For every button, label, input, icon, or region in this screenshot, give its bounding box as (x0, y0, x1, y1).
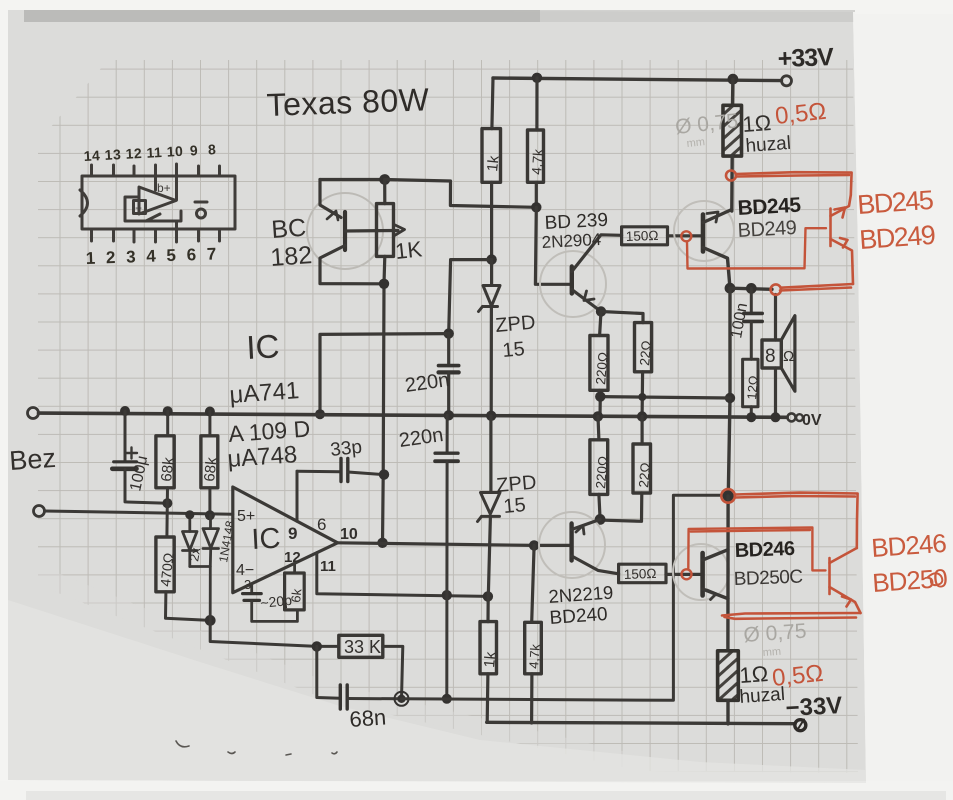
wire 4.7k feed (535, 78, 538, 130)
wire pin3 down (250, 584, 253, 593)
wire pin12 down (293, 563, 296, 573)
svg-text:5+: 5+ (237, 508, 255, 525)
capacitor 68n (317, 646, 402, 709)
node 0V terminal (788, 413, 803, 421)
wire pot feed (383, 180, 386, 204)
junction 68n/33K node (397, 695, 405, 703)
capacitor 220n lower (435, 415, 458, 595)
node -33V terminal (795, 720, 806, 731)
svg-text:12: 12 (284, 549, 301, 566)
svg-text:2N2904: 2N2904 (541, 230, 601, 252)
wire 220R bottom (598, 390, 602, 416)
junction 220R/bias (595, 391, 605, 401)
svg-text:μA748: μA748 (227, 441, 299, 473)
wire output column down (728, 288, 730, 494)
svg-text:8: 8 (765, 346, 776, 367)
resistor 150R upper (622, 227, 668, 245)
junction 1k/zener (486, 254, 496, 264)
svg-text:BD249: BD249 (737, 217, 797, 242)
resistor 22R lower (603, 417, 653, 522)
wire to 2N2904 base (535, 207, 571, 284)
svg-text:0,5Ω: 0,5Ω (771, 660, 825, 692)
wire step down to 4.7k node (385, 180, 537, 208)
junction 68n wire (442, 694, 452, 704)
wire emitter to 220R (600, 312, 601, 336)
transistor Q3 2N2219/BD240 driver (539, 512, 619, 578)
wire pot bottom long vertical to op-amp output (383, 256, 385, 542)
red wire BD245 base link (681, 228, 826, 268)
svg-text:182: 182 (269, 241, 313, 272)
svg-text:1k: 1k (484, 154, 503, 172)
wire 1R bottom to collector (730, 156, 734, 211)
resistor 22R upper (635, 323, 655, 372)
wire +33V rail (493, 78, 782, 81)
node +33V terminal (782, 76, 792, 86)
svg-text:BD240: BD240 (549, 604, 608, 629)
svg-text:4,7k: 4,7k (529, 148, 546, 175)
transistor Q5 BD246 output (pencil) (673, 544, 729, 600)
svg-text:mm: mm (762, 646, 781, 659)
svg-text:68n: 68n (349, 704, 387, 732)
wire 150R to BD245 base (668, 234, 703, 237)
resistor 470R (156, 537, 210, 620)
wire -33V bottom rail (487, 722, 795, 723)
junction 2N2904 emitter (596, 306, 606, 316)
svg-text:33p: 33p (329, 437, 363, 461)
svg-text:+: + (135, 201, 142, 215)
speaker 8R (762, 295, 795, 418)
svg-text:10: 10 (340, 526, 358, 543)
svg-text:Texas 80W: Texas 80W (266, 81, 430, 123)
capacitor 100n (744, 288, 762, 359)
svg-text:0,5Ω: 0,5Ω (774, 98, 828, 130)
transistor BD245 red symbol (831, 195, 854, 284)
resistor 1k (VAS load) (482, 129, 503, 183)
svg-text:12Ω: 12Ω (744, 375, 761, 401)
wire 1k bottom to L corner (490, 182, 493, 259)
svg-text:11: 11 (320, 558, 336, 575)
diode D2 (1N4148) (190, 515, 219, 620)
junction rail/output column (728, 74, 739, 85)
wire output column top (731, 79, 735, 105)
svg-text:Bez: Bez (8, 443, 57, 476)
svg-text:BD246: BD246 (870, 528, 947, 563)
svg-text:Ø 0,75: Ø 0,75 (743, 620, 807, 647)
zener diode ZPD15 lower (478, 416, 501, 596)
transistor Q2 2N2904/BD239 driver (540, 235, 622, 317)
paper lighter below bottom rail (8, 600, 866, 783)
svg-text:BD249: BD249 (858, 220, 935, 255)
right margin lighter area (853, 12, 953, 800)
wire 0V mid rail (39, 413, 788, 417)
wire output row (730, 288, 772, 289)
svg-text:mm: mm (686, 136, 705, 150)
red wire BD245 collector loop (726, 171, 852, 196)
junction 2N2219 collector (595, 514, 606, 525)
wire op-amp output to 2N2219 base (338, 543, 571, 546)
resistor 220R lower (590, 416, 611, 519)
svg-text:68k: 68k (158, 456, 177, 482)
zener diode ZPD15 upper (479, 260, 501, 416)
capacitor 100u electrolytic (112, 411, 167, 503)
junction rail/4.7k (532, 73, 542, 83)
junction 33p/pot column (379, 469, 389, 479)
darker scan band top (24, 10, 856, 22)
junction output/feedback (red ringed) (723, 490, 734, 501)
svg-text:IC: IC (245, 327, 280, 366)
svg-text:4,7k: 4,7k (526, 643, 543, 669)
wire emitter to 22R (601, 312, 643, 323)
svg-text:1Ω: 1Ω (739, 661, 769, 688)
resistor 33K feedback (339, 635, 383, 657)
svg-text:BD246: BD246 (734, 538, 795, 562)
svg-text:Ω: Ω (783, 348, 794, 365)
red wire BD246 emitter to column (722, 613, 861, 619)
junction 100n top (746, 283, 757, 294)
svg-text:6: 6 (317, 515, 326, 534)
junction 33K left (312, 641, 322, 651)
node input terminal 1 (28, 408, 39, 419)
junction 220n top (444, 328, 454, 338)
svg-text:IC: IC (251, 523, 282, 556)
node input terminal 2 (34, 506, 45, 517)
resistor 12R (743, 359, 762, 417)
resistor 1R huzal lower (hatched) (718, 651, 739, 724)
bottom margin light band (0, 781, 953, 800)
wire bias from 220R junction (600, 397, 730, 398)
svg-text:+33V: +33V (777, 43, 834, 73)
wire to left down to rail (320, 334, 449, 415)
transistor Q1 BC182 (307, 180, 384, 284)
capacitor 220n upper (439, 334, 459, 416)
junction rail x320 (315, 409, 325, 419)
svg-text:9: 9 (288, 524, 297, 543)
resistor 68k second (201, 412, 221, 516)
resistor 1k lower (480, 596, 499, 722)
resistor 150R lower (619, 564, 666, 583)
junction pot/BC182 emitter (379, 279, 389, 289)
junction rail dots left (120, 406, 130, 416)
junction top of pot (379, 174, 390, 185)
transistor Q4 BD245 output (pencil) (674, 201, 734, 288)
diode D1 (1N4148) (183, 515, 198, 567)
wire 150R to BD246 base (666, 573, 701, 576)
potentiometer 1K (345, 204, 405, 257)
junction rail dots mid (444, 410, 454, 420)
junction 68k2/input wire (205, 510, 215, 520)
svg-text:−33V: −33V (785, 692, 843, 722)
svg-text:0V: 0V (802, 412, 822, 429)
resistor 220R upper (590, 336, 611, 391)
junction 22R crossing (638, 393, 646, 401)
wire pin9 up (296, 471, 299, 521)
svg-text:BD250: BD250 (871, 563, 948, 598)
svg-text:1Ω: 1Ω (742, 110, 772, 137)
svg-text:1k: 1k (481, 651, 499, 669)
svg-text:220Ω: 220Ω (593, 351, 611, 385)
junction op-amp output (377, 538, 387, 548)
junction output node left (725, 283, 736, 294)
svg-text:ZPD: ZPD (495, 312, 537, 337)
junction rail dots right (746, 412, 756, 422)
svg-text:huzal: huzal (745, 133, 792, 157)
wire feedback to output node (402, 495, 729, 700)
junction base node (529, 540, 539, 550)
svg-text:b+: b+ (157, 181, 171, 195)
junction D1 top (185, 510, 194, 519)
red wire BD246 collector loop (721, 489, 857, 548)
red scribble on 5 of BD250 (928, 573, 942, 585)
wire L to 220n column (449, 260, 492, 334)
wire 470R node to 33K (210, 620, 339, 646)
grid fade bottom-left (38, 585, 640, 781)
svg-text:150Ω: 150Ω (624, 566, 657, 582)
svg-text:BC: BC (270, 214, 307, 244)
svg-text:22Ω: 22Ω (636, 462, 653, 488)
resistor 4.7k lower (525, 545, 543, 723)
svg-text:68k: 68k (201, 456, 220, 482)
svg-text:150Ω: 150Ω (626, 228, 659, 244)
capacitor 33p (297, 459, 384, 482)
junction 100u/68k (162, 498, 172, 508)
wire pin11 to feedback node (317, 553, 488, 597)
svg-text:15: 15 (503, 494, 527, 518)
capacitor 20p (243, 594, 298, 622)
wire 4.7k bottom (535, 182, 538, 207)
pencil squiggle marks bottom (176, 741, 337, 755)
wire 33K right leg (383, 646, 403, 698)
wire lower output column (726, 496, 730, 651)
svg-text:~20p: ~20p (260, 592, 293, 611)
transistor BD246 red symbol (830, 548, 861, 613)
wire BC182 collector to top node (320, 178, 385, 181)
graph grid area (38, 60, 858, 773)
op-amp DIP IC package (80, 164, 235, 242)
svg-text:220Ω: 220Ω (593, 455, 611, 489)
svg-text:ZPD: ZPD (496, 472, 538, 497)
svg-text:15: 15 (502, 338, 526, 362)
red wire BD246 base link (682, 528, 826, 580)
junction 470R/diode column (205, 615, 216, 626)
svg-text:μA741: μA741 (229, 377, 301, 409)
junction bias tap (725, 393, 735, 403)
resistor 68k first (156, 411, 178, 537)
junction 4.7k bottom (531, 202, 541, 212)
wire rail down to 1k (492, 78, 493, 129)
wire 220n2 column to 68n node (445, 595, 448, 699)
resistor 4.7k (528, 130, 546, 182)
wire input 2 to op-amp (45, 511, 233, 514)
svg-text:BD245: BD245 (856, 185, 933, 220)
junction feedback/zener2 (483, 591, 493, 601)
wire 22R bottom (640, 372, 644, 417)
op-amp U1 triangle (233, 487, 338, 593)
junction feedback/220n2 (442, 590, 452, 600)
resistor 1R huzal upper (hatched) (723, 105, 742, 156)
svg-text:22Ω: 22Ω (637, 340, 654, 366)
resistor 6k8 on pin12 (285, 573, 305, 610)
svg-text:33 K: 33 K (344, 637, 381, 657)
red wire BD245 emitter to output (771, 284, 853, 295)
svg-text:3: 3 (244, 577, 251, 592)
svg-text:1K: 1K (394, 236, 424, 264)
svg-text:BD250C: BD250C (733, 567, 803, 590)
svg-text:BD245: BD245 (737, 194, 802, 220)
